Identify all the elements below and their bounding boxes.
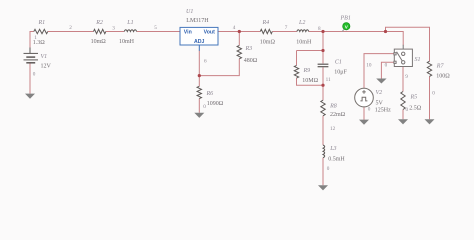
wire R4 to L2: [272, 31, 297, 33]
wire L1 to U1 Vin: [137, 31, 180, 33]
svg-text:5: 5: [154, 25, 157, 31]
resistor R5: [401, 92, 405, 110]
wire R9 bottom to loop bottom: [297, 78, 324, 85]
ground below L3: [318, 185, 328, 190]
wire top-left corner to R1: [30, 32, 34, 51]
wire C1 top stub: [322, 51, 324, 64]
svg-text:2.5Ω: 2.5Ω: [409, 106, 422, 112]
svg-text:10μF: 10μF: [334, 69, 347, 75]
wire node 11 down to R8: [322, 85, 324, 100]
svg-text:R8: R8: [329, 103, 337, 109]
node 8 junction: [321, 30, 324, 33]
svg-text:8: 8: [318, 26, 321, 32]
svg-text:L2: L2: [298, 20, 305, 26]
inductor L1: [124, 30, 136, 32]
svg-text:10mΩ: 10mΩ: [91, 39, 107, 45]
wire R1 to R2: [48, 31, 94, 33]
svg-text:12: 12: [330, 126, 336, 132]
svg-text:480Ω: 480Ω: [244, 58, 258, 64]
wire switch throw to node 10 and V2: [364, 54, 394, 89]
capacitor C1: [318, 64, 329, 67]
resistor R2: [94, 29, 106, 33]
svg-text:R7: R7: [436, 63, 445, 69]
svg-text:C1: C1: [335, 60, 342, 66]
svg-text:R1: R1: [38, 20, 46, 26]
svg-text:5V: 5V: [376, 101, 384, 107]
svg-text:L1: L1: [126, 20, 133, 26]
svg-text:R6: R6: [206, 91, 214, 97]
node 4 junction: [238, 30, 241, 33]
switch S1: [394, 49, 413, 66]
wire R5 to ground: [402, 110, 404, 120]
svg-text:V2: V2: [376, 90, 383, 96]
wire R2 to L1: [106, 31, 124, 33]
svg-text:R3: R3: [245, 46, 253, 52]
wire junction down to R6: [198, 76, 200, 87]
svg-text:R2: R2: [95, 20, 103, 26]
svg-text:R5: R5: [410, 94, 418, 100]
right rail junction: [384, 30, 387, 33]
op-amp U1 regulator LM317H box: [180, 27, 218, 45]
svg-text:0: 0: [327, 166, 330, 172]
ground below R7: [425, 119, 435, 124]
ground at switch throw: [376, 79, 386, 84]
svg-text:2: 2: [69, 25, 72, 31]
svg-text:L3: L3: [329, 146, 336, 152]
ground below V2: [359, 120, 369, 125]
wire R6 to ground: [198, 99, 200, 113]
wire loop left upper to R9: [296, 51, 298, 66]
wire node 8 down to RC loop top: [322, 32, 324, 51]
svg-text:R4: R4: [262, 19, 270, 26]
wire switch common down to R5: [402, 67, 404, 92]
svg-text:10MΩ: 10MΩ: [302, 78, 318, 84]
ADJ rail junction: [198, 74, 201, 77]
svg-text:6: 6: [204, 58, 207, 64]
wire node 4 down to R3: [238, 32, 240, 46]
svg-text:125Hz: 125Hz: [375, 107, 391, 113]
wire C1 bottom stub: [322, 67, 324, 85]
svg-text:0: 0: [406, 107, 409, 113]
resistor R7: [427, 61, 431, 76]
svg-text:12V: 12V: [41, 63, 52, 69]
resistor R6: [197, 86, 201, 98]
inductor L2: [297, 30, 309, 32]
resistor R4: [260, 29, 272, 33]
battery V1: [24, 48, 39, 63]
wire R3 bottom to ADJ rail: [199, 59, 239, 76]
svg-text:9: 9: [405, 74, 408, 80]
resistor R8: [321, 100, 325, 116]
svg-text:10: 10: [366, 63, 372, 69]
ac source V2: [355, 88, 374, 107]
svg-text:0: 0: [33, 72, 36, 78]
svg-text:0: 0: [432, 91, 435, 97]
wire L3 to ground: [322, 158, 324, 186]
node 11 junction: [321, 84, 324, 87]
svg-text:0: 0: [368, 106, 371, 112]
svg-text:PB1: PB1: [340, 16, 351, 22]
wire battery V1 to ground: [29, 63, 31, 94]
svg-text:R9: R9: [303, 68, 311, 74]
svg-text:0: 0: [203, 104, 206, 110]
resistor R3: [237, 45, 241, 58]
svg-text:10mH: 10mH: [119, 39, 135, 45]
svg-text:22mΩ: 22mΩ: [330, 112, 346, 118]
RC loop top junction: [321, 49, 324, 52]
svg-text:0: 0: [385, 63, 388, 69]
resistor R1: [34, 29, 48, 33]
svg-text:Vout: Vout: [204, 29, 215, 35]
svg-text:S1: S1: [415, 57, 421, 63]
wire R8 to L3: [322, 116, 324, 145]
ground below R6: [194, 113, 204, 118]
svg-text:1: 1: [34, 35, 37, 41]
svg-text:1090Ω: 1090Ω: [207, 101, 224, 107]
ground below R5: [398, 119, 408, 124]
resistor R9: [294, 65, 298, 78]
wire L2 to switch S1 column: [309, 32, 403, 46]
inductor L3: [323, 145, 325, 158]
svg-text:11: 11: [326, 77, 331, 83]
svg-text:Vin: Vin: [184, 29, 192, 35]
wire V2 to ground: [363, 107, 365, 120]
svg-text:LM317H: LM317H: [186, 18, 209, 24]
svg-text:100Ω: 100Ω: [436, 74, 450, 80]
wire ADJ pin down to junction: [198, 51, 200, 76]
svg-text:0.5mH: 0.5mH: [328, 157, 345, 163]
U1 ADJ blue pin stub: [198, 45, 200, 51]
probe PB1: [342, 23, 350, 32]
ground below battery V1: [25, 94, 35, 99]
svg-text:3: 3: [112, 25, 115, 31]
wire right junction up and over to R7: [386, 27, 430, 61]
svg-text:10mΩ: 10mΩ: [260, 40, 276, 46]
svg-text:7: 7: [285, 25, 288, 31]
wire loop top horizontal: [297, 50, 324, 52]
wire switch throw to small ground: [381, 62, 394, 78]
svg-text:U1: U1: [186, 9, 193, 15]
svg-text:V1: V1: [41, 54, 48, 60]
svg-text:4: 4: [233, 25, 236, 31]
switch S1 top pin stub: [402, 45, 404, 49]
svg-text:10mH: 10mH: [296, 40, 312, 46]
wire U1 Vout to node 4 and R4: [218, 31, 260, 33]
wire R7 to ground: [429, 76, 431, 119]
svg-text:ADJ: ADJ: [194, 39, 204, 45]
